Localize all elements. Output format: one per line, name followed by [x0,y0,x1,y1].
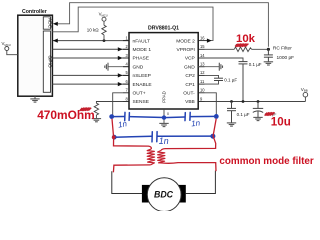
svg-text:GND: GND [133,64,144,70]
capacitor C6 10u (printed 100uF scribbled) [253,102,263,118]
svg-text:12: 12 [200,70,205,75]
capacitor C3 0.1uF (CP1-CP2) [205,75,219,84]
red wire left (OUT+ into choke) [112,119,151,149]
ground (PPAD) [159,123,168,126]
arrow into MODE2 pin16 [207,39,212,43]
svg-text:common mode filter: common mode filter [219,156,314,167]
inductor L1 (choke winding A) [147,149,155,165]
svg-text:10k: 10k [236,33,256,45]
svg-text:1n: 1n [159,136,169,146]
wire ENABLE (controller to pin6) [52,83,129,85]
wire VBB rail pin9 [205,101,306,103]
wire PHASE (controller to pin3) [52,57,129,59]
red wire choke B out to motor right [163,163,217,172]
svg-text:10u: 10u [271,115,291,128]
node (pullup junction) [103,39,106,42]
red scribble over 100kOhm [235,44,248,47]
svg-text:VCP: VCP [185,56,195,62]
wire [130,116,164,119]
svg-text:SENSE: SENSE [133,99,150,105]
blue cap line 2 (line-line) [114,132,213,142]
svg-text:15: 15 [200,44,205,49]
pin stubs left [123,41,129,102]
node OUT- (blue) [214,114,219,119]
svg-text:nFAULT: nFAULT [133,38,150,44]
wire MODE2 to GPIO (top inner) [52,7,213,41]
svg-text:0.1 µF: 0.1 µF [249,62,262,67]
red dot [112,135,116,139]
pin names left [133,38,153,105]
node GND mid (blue) [162,115,166,119]
controller U2 [18,9,53,96]
svg-text:14: 14 [200,53,205,58]
svg-text:1000 pF: 1000 pF [277,55,295,61]
svg-text:PPAD: PPAD [161,91,166,102]
capacitor 1n (line-line) [151,132,153,142]
wire OUT+ pin7 down [113,93,123,117]
svg-text:470mOhm: 470mOhm [37,108,94,122]
resistor R1 10k pullup [102,21,106,40]
wire nSLEEP (controller to pin5) [52,74,129,76]
svg-text:ADC: ADC [47,18,53,29]
svg-text:Controller: Controller [22,9,47,15]
wire MODE1 (controller to pin2) [52,48,129,50]
svg-text:0.1 µF: 0.1 µF [224,77,237,82]
blue cap line 1 (OUT+ to gnd to OUT-) [112,112,217,120]
motor M1 BDC [142,185,151,203]
ground (RC filter) [264,62,273,65]
resistor R2 (10k handwritten, printed 100 kOhm scribbled) [234,47,268,52]
red scribble over sense value [80,108,92,112]
terminal VMCU (controller) [2,41,18,55]
svg-text:PHASE: PHASE [133,56,150,62]
capacitor C2 0.1uF (VCP-VBB) [239,62,248,102]
GPIO block [43,31,52,92]
red scribble over 100uF [265,112,275,116]
svg-text:0: 0 [167,112,169,116]
ground (C6) [253,117,262,120]
svg-text:BDC: BDC [154,190,174,200]
wire VCP pin14 [205,58,244,62]
svg-text:MODE 2: MODE 2 [176,38,195,44]
wire [191,115,217,117]
resistor R3 sense (470mOhm handwritten) [94,103,98,118]
wire OUT- pin10 down [205,93,217,117]
svg-text:10 kΩ: 10 kΩ [87,28,100,33]
node RC filter [267,48,270,51]
wire [112,116,125,118]
wire SENSE pin8 [96,102,123,104]
wire VPROPI pin15 to RC node [205,48,235,50]
svg-text:nSLEEP: nSLEEP [133,73,151,79]
wire motor right lead [186,171,216,194]
svg-text:10: 10 [200,88,205,93]
ground arrow (pin4 GND) [105,63,129,71]
wire motor left lead [112,171,142,193]
red wire right (OUT- into choke) [161,119,216,151]
ADC block [43,17,52,29]
svg-text:13: 13 [200,62,205,67]
capacitor C4 1000pF [264,49,273,62]
ground (controller) [30,96,39,102]
svg-text:1n: 1n [191,118,201,128]
wire VMCU to controller [7,50,18,54]
capacitor C5 0.1uF (VBB) [227,102,236,123]
capacitor 1n (left, line-gnd) [124,112,126,120]
pin numbers left [126,35,129,101]
ground (sense) [92,119,101,122]
svg-text:GND: GND [184,64,195,70]
node OUT+ (blue) [109,114,114,119]
svg-text:ENABLE: ENABLE [133,82,153,88]
svg-text:DRV8801-Q1: DRV8801-Q1 [148,26,179,32]
svg-text:RC Filter: RC Filter [273,45,292,51]
ground (C5) [227,123,236,126]
ground arrow (pin13 GND) [198,63,222,71]
svg-text:OUT+: OUT+ [133,91,146,97]
svg-text:16: 16 [200,35,205,40]
wire VPROPI-node to ADC (top outer) [58,3,269,47]
svg-text:GPIO: GPIO [47,55,53,67]
svg-text:MODE 1: MODE 1 [133,47,152,53]
svg-text:OUT-: OUT- [183,91,195,97]
svg-text:CP2: CP2 [185,73,195,79]
pin stubs right [198,41,209,102]
arrow into ADC [53,22,58,26]
wire nFAULT (pin1 to controller) [53,40,129,42]
inductor L2 (choke winding B) [158,150,165,163]
svg-text:VPROPI: VPROPI [176,47,194,53]
svg-text:11: 11 [200,79,205,84]
red wire choke A out to motor left [113,165,150,172]
svg-text:VBB: VBB [185,99,195,105]
capacitor 1n (right, line-gnd) [184,113,186,121]
svg-text:0.1 µF: 0.1 µF [237,112,250,117]
svg-text:CP1: CP1 [185,82,195,88]
pin names right [176,38,195,105]
pin numbers right [200,35,205,101]
